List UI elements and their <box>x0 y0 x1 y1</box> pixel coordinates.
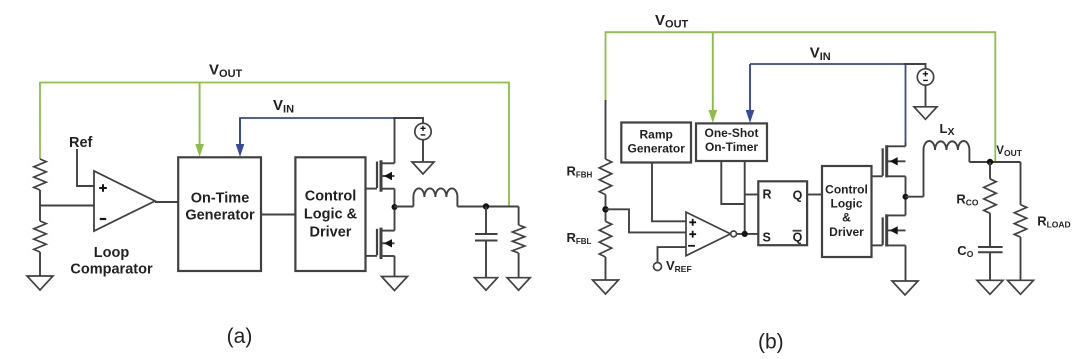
svg-text:On-Time: On-Time <box>191 191 250 207</box>
svg-text:S: S <box>763 230 771 244</box>
svg-text:Logic: Logic <box>831 197 863 211</box>
svg-text:&: & <box>842 211 851 225</box>
svg-text:Logic &: Logic & <box>304 207 358 223</box>
svg-text:Comparator: Comparator <box>70 262 153 278</box>
svg-text:R: R <box>763 188 772 202</box>
svg-text:Driver: Driver <box>829 225 864 239</box>
svg-text:Control: Control <box>825 182 868 196</box>
svg-text:One-Shot: One-Shot <box>705 126 759 140</box>
svg-text:Generator: Generator <box>628 142 686 156</box>
svg-text:(a): (a) <box>227 325 253 348</box>
svg-text:Generator: Generator <box>185 208 255 224</box>
svg-text:Driver: Driver <box>310 225 352 241</box>
svg-text:(b): (b) <box>758 331 784 354</box>
svg-text:Control: Control <box>305 189 357 205</box>
svg-text:Q: Q <box>793 230 803 244</box>
svg-text:Q: Q <box>793 189 803 203</box>
svg-text:VOUT: VOUT <box>996 145 1022 158</box>
svg-text:On-Timer: On-Timer <box>705 140 758 154</box>
svg-text:Ramp: Ramp <box>640 128 673 142</box>
svg-text:Loop: Loop <box>94 245 130 261</box>
svg-text:Ref: Ref <box>69 135 93 151</box>
